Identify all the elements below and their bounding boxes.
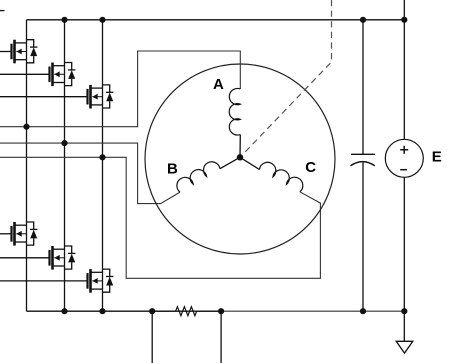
svg-text:E: E	[432, 149, 442, 166]
node: motor star point	[237, 154, 243, 160]
node: phase A at leg1	[23, 124, 29, 130]
node: shunt right	[218, 308, 224, 314]
node: shunt left	[149, 308, 155, 314]
wire: winding C lead to star point	[240, 157, 259, 169]
capacitor C1	[351, 154, 376, 166]
node: bottom rail / ground	[401, 308, 407, 314]
resistor R1 (current shunt)	[152, 307, 221, 316]
transistor Q5 (low side phase B)	[50, 246, 76, 270]
transistor Q4 (low side phase A)	[12, 222, 38, 246]
transistor Q6 (low side phase C)	[88, 269, 114, 293]
wire: bridge leg 1 vertical	[26, 20, 28, 311]
wire: bottom ground rail left	[27, 310, 222, 312]
node: phase B at leg2	[61, 140, 67, 146]
node: top rail / source junction	[401, 17, 407, 23]
transistor Q1 (high side phase A)	[12, 40, 38, 64]
node: top rail / leg3 junction	[99, 17, 105, 23]
wire: gate lead Q1	[0, 51, 12, 53]
ground symbol	[396, 311, 413, 353]
wire: gate lead Q4	[0, 233, 12, 235]
svg-text:C: C	[305, 159, 316, 176]
wire: bottom ground rail right	[221, 310, 404, 312]
node: bottom rail / leg2	[61, 308, 67, 314]
node: bottom rail / leg3	[99, 308, 105, 314]
node: top rail / capacitor junction	[360, 17, 366, 23]
wire: source E bottom lead	[403, 177, 405, 311]
svg-text:B: B	[167, 161, 178, 178]
svg-text:A: A	[213, 76, 224, 93]
wire: capacitor C1 bottom lead	[362, 163, 364, 312]
wire: gate lead Q3	[0, 96, 88, 98]
winding A (inductor)	[229, 88, 240, 135]
wire: capacitor C1 top lead	[362, 20, 364, 155]
wire: bridge leg 2 vertical	[64, 20, 66, 311]
wire: phase C route from leg3 node	[0, 157, 320, 278]
transistor Q2 (high side phase B)	[50, 63, 76, 87]
wire: gate lead Q5	[0, 257, 50, 259]
wire: edge stub top-left	[0, 10, 5, 12]
node: top rail / leg2 junction	[61, 17, 67, 23]
wire: source E top lead	[403, 0, 405, 139]
wire: shunt tap lead right	[220, 311, 222, 363]
wire: gate lead Q2	[0, 73, 50, 75]
dashed rotor position reference line	[243, 0, 332, 154]
node: phase C at leg3	[99, 154, 105, 160]
wire: phase A route from leg1 node	[0, 51, 240, 127]
winding B (inductor)	[177, 162, 220, 192]
motor housing circle	[145, 64, 335, 254]
wire: phase B route from leg2 node	[0, 143, 180, 204]
winding C (inductor)	[259, 162, 302, 191]
wire: shunt tap lead left	[151, 311, 153, 363]
voltage source E	[385, 139, 423, 177]
wire: winding B lead to star point	[220, 157, 240, 168]
wire: bridge leg 3 vertical	[102, 20, 104, 311]
transistor Q3 (high side phase C)	[88, 85, 114, 109]
wire: gate lead Q6	[0, 280, 88, 282]
wire: top DC bus rail	[27, 19, 405, 21]
wire: winding A lead to star point	[239, 135, 241, 158]
node: bottom rail / capacitor	[360, 308, 366, 314]
